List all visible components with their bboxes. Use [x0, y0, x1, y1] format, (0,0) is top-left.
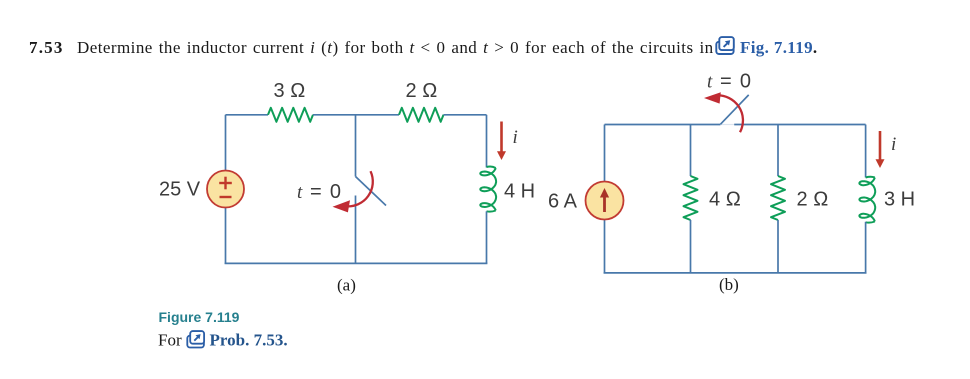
- svg-text:7.53: 7.53: [29, 38, 64, 57]
- svg-text:(b): (b): [719, 275, 739, 294]
- current source 6A (b): [586, 182, 624, 220]
- wire: branch 1 lower (b): [690, 220, 692, 273]
- svg-text:4 H: 4 H: [504, 181, 535, 203]
- wire: branch 1 upper (b): [690, 125, 692, 177]
- current arrow i (a): [497, 122, 506, 161]
- svg-text:3 Ω: 3 Ω: [274, 80, 306, 102]
- wire: bottom rail (b): [604, 272, 867, 274]
- wire: middle branch lower segment (a): [355, 196, 357, 264]
- wire: left branch (b): [604, 125, 606, 274]
- resistor R 2ohm (b): [771, 176, 785, 220]
- svg-text:(a): (a): [337, 276, 356, 295]
- voltage source 25V (a): [207, 171, 244, 208]
- current arrow i (b): [876, 131, 885, 168]
- switch blade (b): [720, 95, 748, 124]
- svg-text:i: i: [891, 134, 896, 155]
- switch opening arrow (b): [704, 92, 743, 132]
- svg-text:= 0: = 0: [720, 71, 751, 93]
- svg-text:Fig. 7.119.: Fig. 7.119.: [740, 38, 818, 57]
- svg-text:t: t: [707, 72, 713, 93]
- svg-text:For: For: [158, 331, 182, 350]
- resistor R 2ohm (a, top-right): [399, 108, 444, 122]
- wire: bottom rail (a): [225, 262, 488, 264]
- svg-text:Prob. 7.53.: Prob. 7.53.: [210, 331, 288, 350]
- svg-text:= 0: = 0: [310, 181, 341, 203]
- svg-text:6 A: 6 A: [548, 191, 578, 213]
- problem statement text line: [29, 38, 714, 57]
- inductor 4H coil (a): [480, 166, 496, 211]
- wire: branch 2 upper (b): [777, 125, 779, 177]
- wire: middle branch upper segment (a): [355, 115, 357, 177]
- wire: right branch upper segment (a): [486, 115, 488, 168]
- resistor R 3ohm (a, top-left): [268, 108, 313, 122]
- wire: top rail left segment (a): [226, 114, 269, 116]
- wire: branch 2 lower (b): [777, 220, 779, 273]
- switch gap ghost line (b): [720, 124, 734, 126]
- link icon (title): [716, 37, 734, 54]
- switch closing arrow (a): [333, 171, 373, 212]
- wire: top rail right segment (b): [734, 124, 865, 126]
- svg-text:25 V: 25 V: [159, 179, 201, 201]
- wire: right branch lower segment (a): [486, 211, 488, 263]
- svg-text:2 Ω: 2 Ω: [406, 80, 438, 102]
- svg-text:2 Ω: 2 Ω: [797, 189, 829, 211]
- resistor R 4ohm (b): [684, 176, 698, 220]
- link icon (caption): [187, 331, 204, 347]
- wire: left branch (a): [225, 115, 227, 264]
- svg-text:4 Ω: 4 Ω: [709, 189, 741, 211]
- wire: right branch upper segment (b): [865, 125, 867, 178]
- svg-text:Determine the inductor current: Determine the inductor current i (t) for…: [77, 38, 714, 57]
- inductor 3H coil (b): [859, 177, 875, 223]
- svg-text:3 H: 3 H: [884, 189, 915, 211]
- svg-text:Figure 7.119: Figure 7.119: [159, 309, 240, 325]
- wire: top rail right segment (a): [444, 114, 487, 116]
- svg-text:i: i: [513, 127, 518, 148]
- wire: top rail middle segment (a): [313, 114, 399, 116]
- switch blade (a): [356, 177, 387, 206]
- wire: top rail left segment (b): [605, 124, 721, 126]
- svg-text:t: t: [297, 182, 303, 203]
- wire: right branch lower segment (b): [865, 222, 867, 273]
